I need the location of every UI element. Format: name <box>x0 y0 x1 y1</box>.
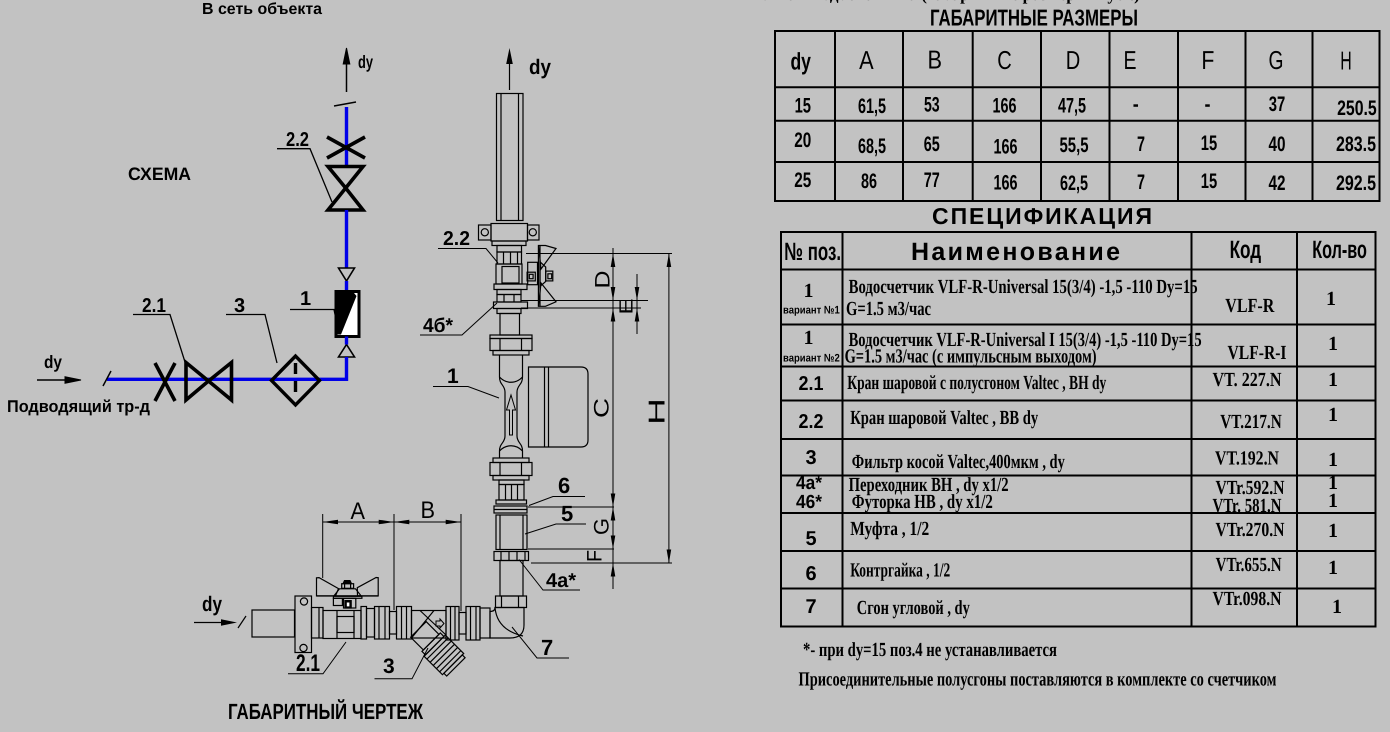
svg-text:55,5: 55,5 <box>1060 134 1089 157</box>
svg-text:2.1: 2.1 <box>142 295 166 317</box>
svg-text:2.1: 2.1 <box>296 650 320 677</box>
svg-text:VT.217.N: VT.217.N <box>1220 411 1282 433</box>
col 4 quantities <box>1326 288 1342 618</box>
mounting plate with bolt ears <box>479 224 540 242</box>
svg-text:37: 37 <box>1269 93 1286 116</box>
svg-text:15: 15 <box>795 94 812 117</box>
dy arrow top of schematic <box>343 48 373 92</box>
svg-text:VLF-R-I: VLF-R-I <box>1228 342 1287 364</box>
col 2 names <box>845 276 1202 619</box>
svg-text:A: A <box>351 498 366 525</box>
svg-text:C: C <box>997 45 1012 75</box>
top reference line <box>526 253 672 255</box>
label 3 with leader (drawing) <box>375 648 429 679</box>
strainer diagonal branch with hatched cap <box>408 619 467 678</box>
svg-text:B: B <box>421 497 436 524</box>
svg-text:1: 1 <box>1328 333 1338 355</box>
svg-text:Присоединительные полусгоны по: Присоединительные полусгоны поставляются… <box>799 669 1277 691</box>
label 2.2 with leader <box>277 129 332 202</box>
pipe break tick <box>334 102 356 106</box>
svg-text:Кол-во: Кол-во <box>1312 236 1367 264</box>
svg-text:В сеть объекта: В сеть объекта <box>202 1 322 18</box>
flow arrow inside tube <box>507 395 516 435</box>
svg-text:Подводящий тр-д: Подводящий тр-д <box>7 397 150 416</box>
half-union flange plate with bolts <box>295 596 312 653</box>
svg-text:1: 1 <box>1328 404 1338 426</box>
svg-text:ГАБАРИТНЫЙ ЧЕРТЕЖ: ГАБАРИТНЫЙ ЧЕРТЕЖ <box>228 699 423 724</box>
pipe between valve and union <box>500 314 520 336</box>
svg-text:Фильтр косой Valtec,400мкм , d: Фильтр косой Valtec,400мкм , dy <box>852 451 1065 473</box>
wire: blue short segment 2 <box>345 337 348 345</box>
svg-text:СХЕМА: СХЕМА <box>128 164 191 184</box>
pipe break tick left <box>103 371 111 386</box>
svg-text:Водосчетчик VLF-R-Universal 1: Водосчетчик VLF-R-Universal 15(3/4) -1,5… <box>849 276 1198 298</box>
svg-text:E: E <box>617 299 638 315</box>
svg-text:1: 1 <box>1328 490 1338 512</box>
dy arrow left of assembly <box>194 593 237 626</box>
coupling 5 <box>496 515 527 550</box>
svg-text:1: 1 <box>1328 449 1338 471</box>
svg-text:Кран шаровой Valtec , ВВ dy: Кран шаровой Valtec , ВВ dy <box>850 407 1038 429</box>
svg-text:A: A <box>859 45 874 75</box>
svg-text:1: 1 <box>1326 288 1336 310</box>
svg-text:G: G <box>591 518 614 535</box>
label 4a* with leader <box>519 560 580 593</box>
svg-text:292.5: 292.5 <box>1336 172 1376 195</box>
svg-text:Сгон угловой , dy: Сгон угловой , dy <box>857 597 970 619</box>
svg-text:VLF-R: VLF-R <box>1225 295 1274 317</box>
strainer outlet nut <box>446 607 459 641</box>
svg-text:Футорка НВ , dy х1/2: Футорка НВ , dy х1/2 <box>852 491 993 513</box>
svg-text:6: 6 <box>558 473 570 498</box>
table 1 header row <box>790 45 1351 76</box>
table 1 grid <box>775 31 1380 201</box>
label 1 with leader (drawing) <box>433 365 499 398</box>
svg-text:46*: 46* <box>796 492 823 513</box>
adapter 4a hex <box>494 552 529 561</box>
label 7 with leader <box>512 627 569 660</box>
svg-text:166: 166 <box>994 135 1018 158</box>
svg-text:Код: Код <box>1230 236 1262 264</box>
svg-text:1: 1 <box>804 327 814 349</box>
pipe down to elbow <box>500 561 523 597</box>
svg-text:Контргайка , 1/2: Контргайка , 1/2 <box>850 560 950 582</box>
strainer 3 body <box>412 611 447 639</box>
svg-text:VTr.098.N: VTr.098.N <box>1213 588 1282 610</box>
flow triangle down <box>339 268 355 281</box>
svg-text:53: 53 <box>924 94 940 117</box>
svg-text:C: C <box>591 398 614 418</box>
svg-text:68,5: 68,5 <box>858 135 886 158</box>
pipe <box>459 613 466 635</box>
svg-text:СПЕЦИФИКАЦИЯ: СПЕЦИФИКАЦИЯ <box>932 203 1152 229</box>
valve 2.1 body <box>323 611 361 639</box>
svg-text:25: 25 <box>794 169 811 192</box>
closed-valve X mark on horizontal line <box>155 363 175 401</box>
svg-text:Муфта , 1/2: Муфта , 1/2 <box>850 518 929 540</box>
table 2 grid <box>781 232 1376 627</box>
svg-text:1: 1 <box>447 365 459 388</box>
svg-text:86: 86 <box>861 170 877 193</box>
svg-text:D: D <box>592 271 615 289</box>
table 2 header row <box>784 236 1367 266</box>
label 2.2 with leader (drawing) <box>438 228 498 263</box>
svg-text:dy: dy <box>202 593 222 616</box>
svg-text:42: 42 <box>1269 172 1286 195</box>
filter 3 (schematic diamond) <box>272 356 320 405</box>
valve 2.1 (schematic bowtie horizontal) <box>186 363 232 401</box>
svg-text:166: 166 <box>993 94 1017 117</box>
wire: blue vertical pipe upper <box>345 107 348 166</box>
svg-text:1: 1 <box>1332 596 1342 618</box>
D/C/G/F dimension line <box>612 248 614 589</box>
svg-text:61,5: 61,5 <box>858 95 886 118</box>
svg-text:65: 65 <box>924 133 940 156</box>
svg-text:D: D <box>1066 45 1081 75</box>
band <box>494 506 527 513</box>
label 4б* with leader <box>420 303 497 337</box>
svg-text:2.2: 2.2 <box>799 411 824 433</box>
stack after valve <box>361 607 390 640</box>
label 2.1 with leader (drawing) <box>288 642 346 677</box>
valve 2.2 handle (side view) <box>527 246 556 307</box>
svg-text:1: 1 <box>1328 369 1338 391</box>
bracket plate double line <box>521 300 648 302</box>
label 2.1 with leader <box>133 295 185 362</box>
svg-text:вариант №1: вариант №1 <box>783 305 840 317</box>
svg-text:Кран шаровой с полусгоном Valt: Кран шаровой с полусгоном Valtec , ВН dy <box>847 372 1106 394</box>
union before elbow <box>466 607 490 641</box>
col 3 codes <box>1213 295 1287 610</box>
svg-text:VT.192.N: VT.192.N <box>1215 448 1279 470</box>
wire: blue vertical to elbow + horizontal main line <box>107 357 347 379</box>
wire: blue short segment <box>345 281 348 292</box>
svg-text:2.2: 2.2 <box>443 228 470 250</box>
svg-text:6: 6 <box>805 563 816 585</box>
svg-text:VTr.655.N: VTr.655.N <box>1216 554 1282 576</box>
svg-text:15: 15 <box>1201 132 1218 155</box>
svg-text:-: - <box>1133 93 1139 116</box>
table 1 row dy=25 <box>794 169 1376 195</box>
svg-text:40: 40 <box>1269 133 1286 156</box>
svg-text:E: E <box>1124 45 1137 75</box>
svg-text:283.5: 283.5 <box>1336 133 1376 156</box>
svg-text:15: 15 <box>1201 170 1218 193</box>
meter 1 tube with venturi <box>500 355 523 458</box>
svg-text:F: F <box>584 550 607 562</box>
svg-text:3: 3 <box>234 295 245 317</box>
strainer inlet nut <box>397 607 412 640</box>
elbow 7 <box>490 608 524 639</box>
col 1 position numbers <box>783 280 840 618</box>
svg-text:5: 5 <box>561 501 573 526</box>
locknut 6 <box>496 480 527 504</box>
svg-text:dy: dy <box>790 49 811 76</box>
flow triangle up <box>339 345 355 358</box>
svg-text:77: 77 <box>924 169 940 192</box>
label 3 with leader <box>226 295 277 363</box>
dim A/B <box>323 521 461 523</box>
svg-text:G=1.5 м3/час (с импульсным вых: G=1.5 м3/час (с импульсным выходом) <box>845 346 1097 368</box>
dy arrow top of drawing <box>506 48 551 90</box>
svg-text:dy: dy <box>529 56 551 79</box>
svg-text:G=1.5 м3/час: G=1.5 м3/час <box>846 298 931 320</box>
svg-text:Наименование: Наименование <box>911 238 1120 266</box>
svg-text:H: H <box>644 398 670 425</box>
svg-text:VTr. 581.N: VTr. 581.N <box>1213 495 1282 517</box>
closed-valve X mark <box>327 137 365 158</box>
union nut above meter <box>490 335 532 355</box>
svg-text:4б*: 4б* <box>423 315 453 337</box>
svg-text:47,5: 47,5 <box>1058 95 1086 118</box>
svg-text:2.1: 2.1 <box>799 373 824 395</box>
nut above elbow <box>496 596 527 608</box>
svg-text:B: B <box>928 45 943 75</box>
svg-text:3: 3 <box>805 447 816 469</box>
table 1 row dy=20 <box>794 129 1376 158</box>
svg-text:7: 7 <box>541 635 553 660</box>
svg-text:dy: dy <box>44 352 62 372</box>
union <box>312 608 324 639</box>
label 1 with leader <box>290 288 338 329</box>
svg-text:-: - <box>1205 93 1211 116</box>
svg-text:7: 7 <box>1137 171 1145 194</box>
union nut below meter <box>490 458 532 480</box>
svg-text:G: G <box>1269 45 1284 75</box>
H dimension <box>668 254 670 564</box>
pipe <box>390 612 397 635</box>
svg-text:7: 7 <box>805 596 816 618</box>
svg-text:4a*: 4a* <box>796 473 823 494</box>
valve 2.2 body stack <box>492 241 528 314</box>
svg-text:1: 1 <box>804 280 814 302</box>
svg-text:1: 1 <box>1328 520 1338 542</box>
label 5 with leader <box>525 501 586 534</box>
dy arrow left <box>37 352 81 383</box>
svg-text:62,5: 62,5 <box>1060 172 1088 195</box>
svg-text:7: 7 <box>1137 133 1145 156</box>
svg-text:250.5: 250.5 <box>1337 97 1377 120</box>
label 6 with leader <box>529 473 585 506</box>
svg-text:Монтаж водосчетчика (габаритны: Монтаж водосчетчика (габаритные размеры … <box>745 0 1140 4</box>
register head of meter <box>529 367 589 447</box>
svg-text:№ поз.: № поз. <box>784 238 841 266</box>
svg-text:ГАБАРИТНЫЕ РАЗМЕРЫ: ГАБАРИТНЫЕ РАЗМЕРЫ <box>930 5 1138 31</box>
E dimension <box>636 274 638 334</box>
extension lines right of fittings <box>528 506 614 508</box>
svg-text:2.2: 2.2 <box>286 129 309 151</box>
inlet pipe <box>252 610 295 637</box>
meter 1 (schematic rect with black wedge) <box>336 292 359 337</box>
svg-text:166: 166 <box>994 172 1018 195</box>
svg-text:3: 3 <box>383 655 395 678</box>
top pipe <box>497 94 524 221</box>
valve 2.1 butterfly handle (top) <box>317 578 379 609</box>
svg-text:5: 5 <box>805 528 816 550</box>
svg-text:H: H <box>1340 45 1352 75</box>
svg-text:dy: dy <box>358 52 373 72</box>
svg-text:VTr.270.N: VTr.270.N <box>1216 519 1285 541</box>
table 1 row dy=15 <box>795 93 1377 120</box>
wire: blue vertical pipe mid <box>345 210 348 268</box>
svg-text:1: 1 <box>1328 557 1338 579</box>
svg-text:20: 20 <box>794 129 811 152</box>
svg-text:вариант №2: вариант №2 <box>783 353 840 365</box>
valve 2.2 (schematic bowtie vertical) <box>328 167 363 211</box>
svg-text:1: 1 <box>300 288 311 310</box>
svg-text:F: F <box>1201 45 1214 75</box>
svg-text:VT. 227.N: VT. 227.N <box>1213 369 1282 391</box>
svg-text:*- при dy=15 поз.4 не устанавл: *- при dy=15 поз.4 не устанавливается <box>803 639 1057 661</box>
svg-text:4a*: 4a* <box>546 570 576 592</box>
